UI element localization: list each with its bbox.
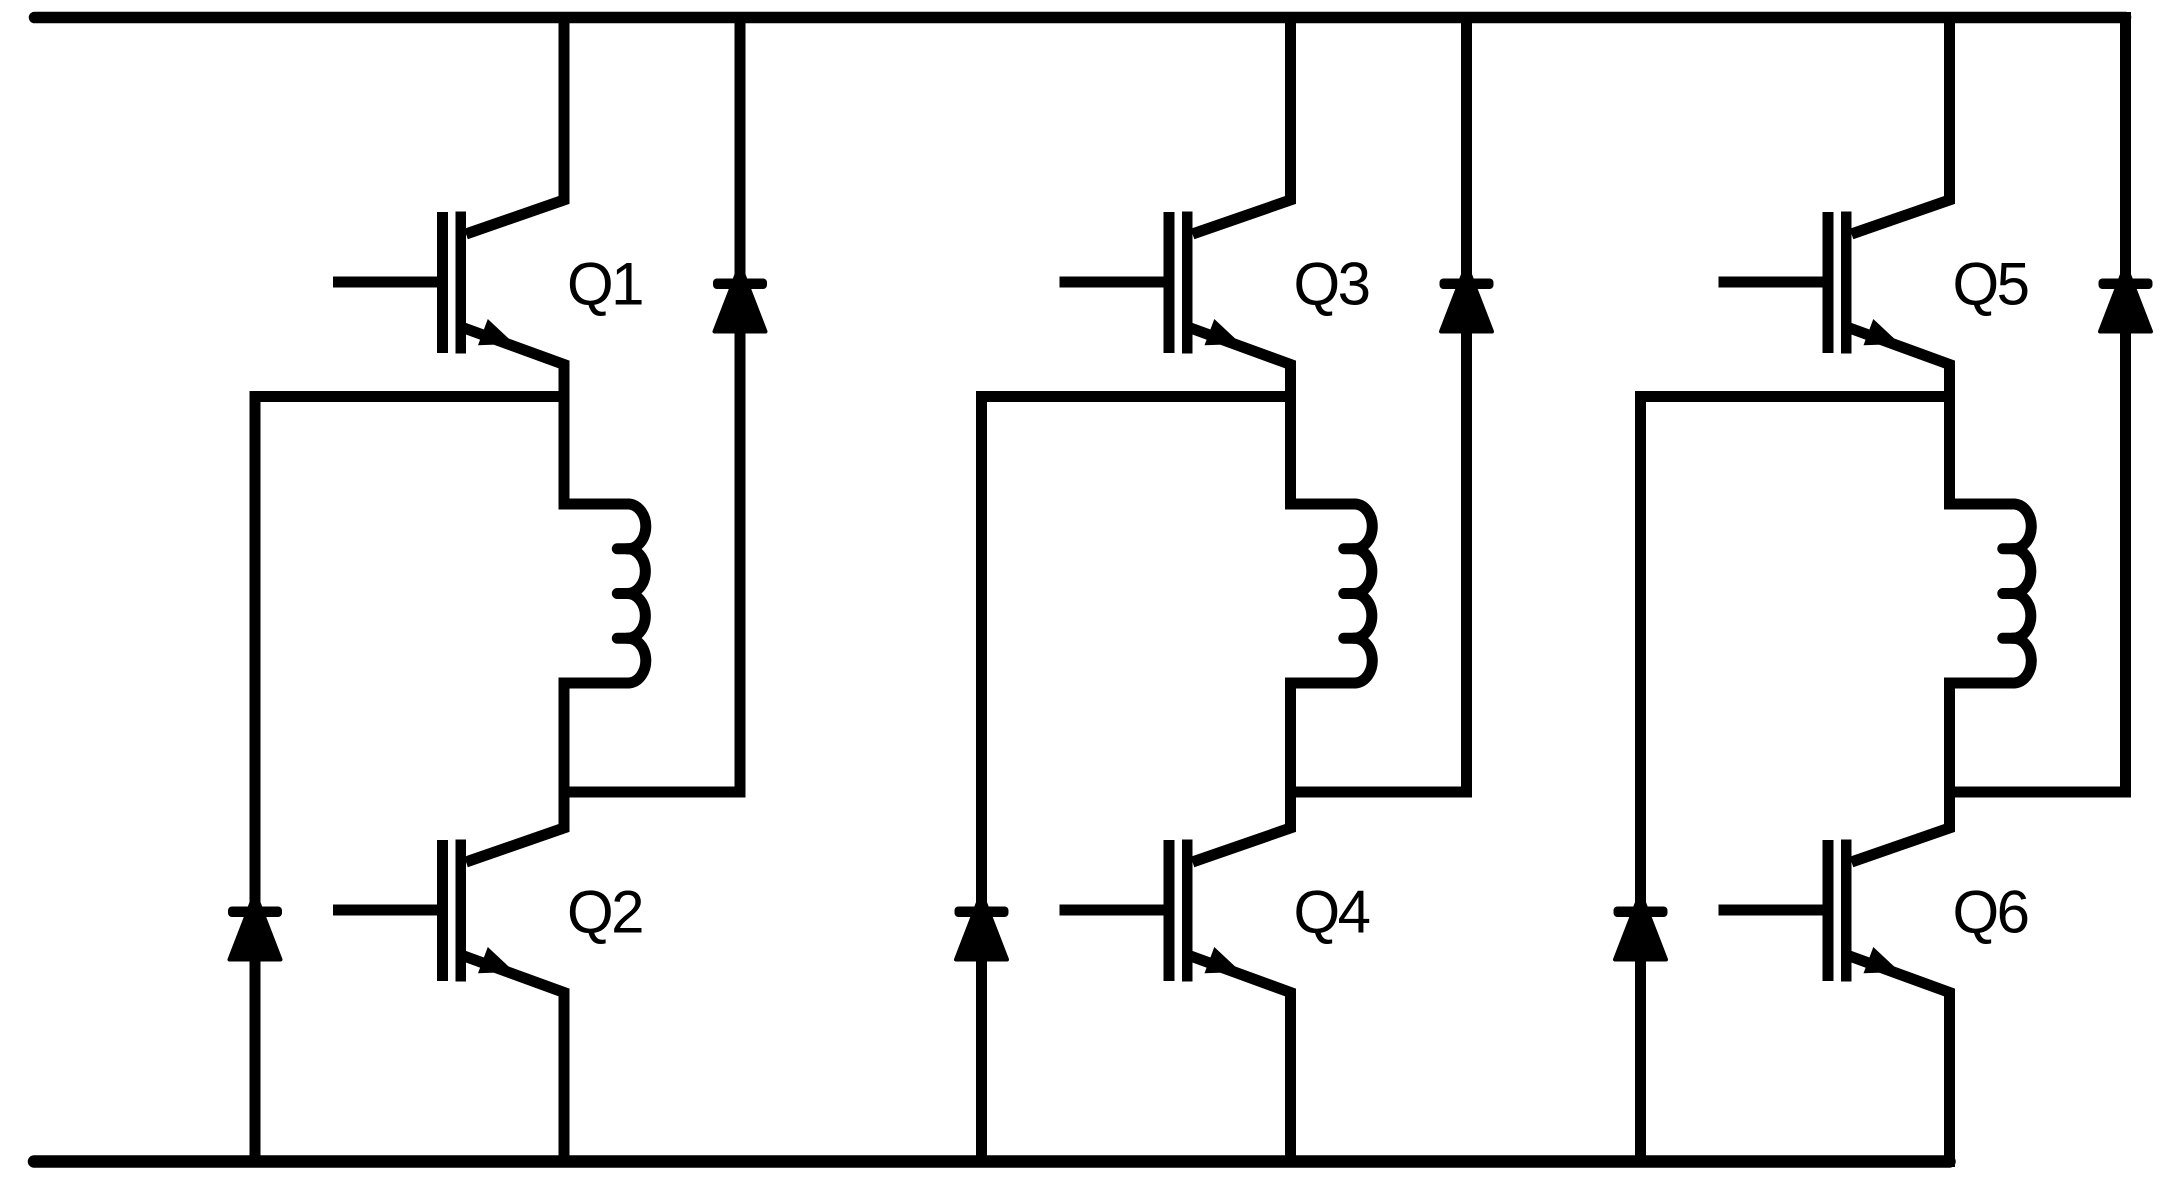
svg-text:Q4: Q4: [1294, 879, 1370, 946]
svg-text:Q5: Q5: [1953, 251, 2028, 318]
svg-text:Q6: Q6: [1953, 879, 2028, 946]
svg-text:Q2: Q2: [567, 879, 642, 946]
svg-text:Q3: Q3: [1294, 251, 1369, 318]
svg-text:Q1: Q1: [567, 251, 642, 318]
